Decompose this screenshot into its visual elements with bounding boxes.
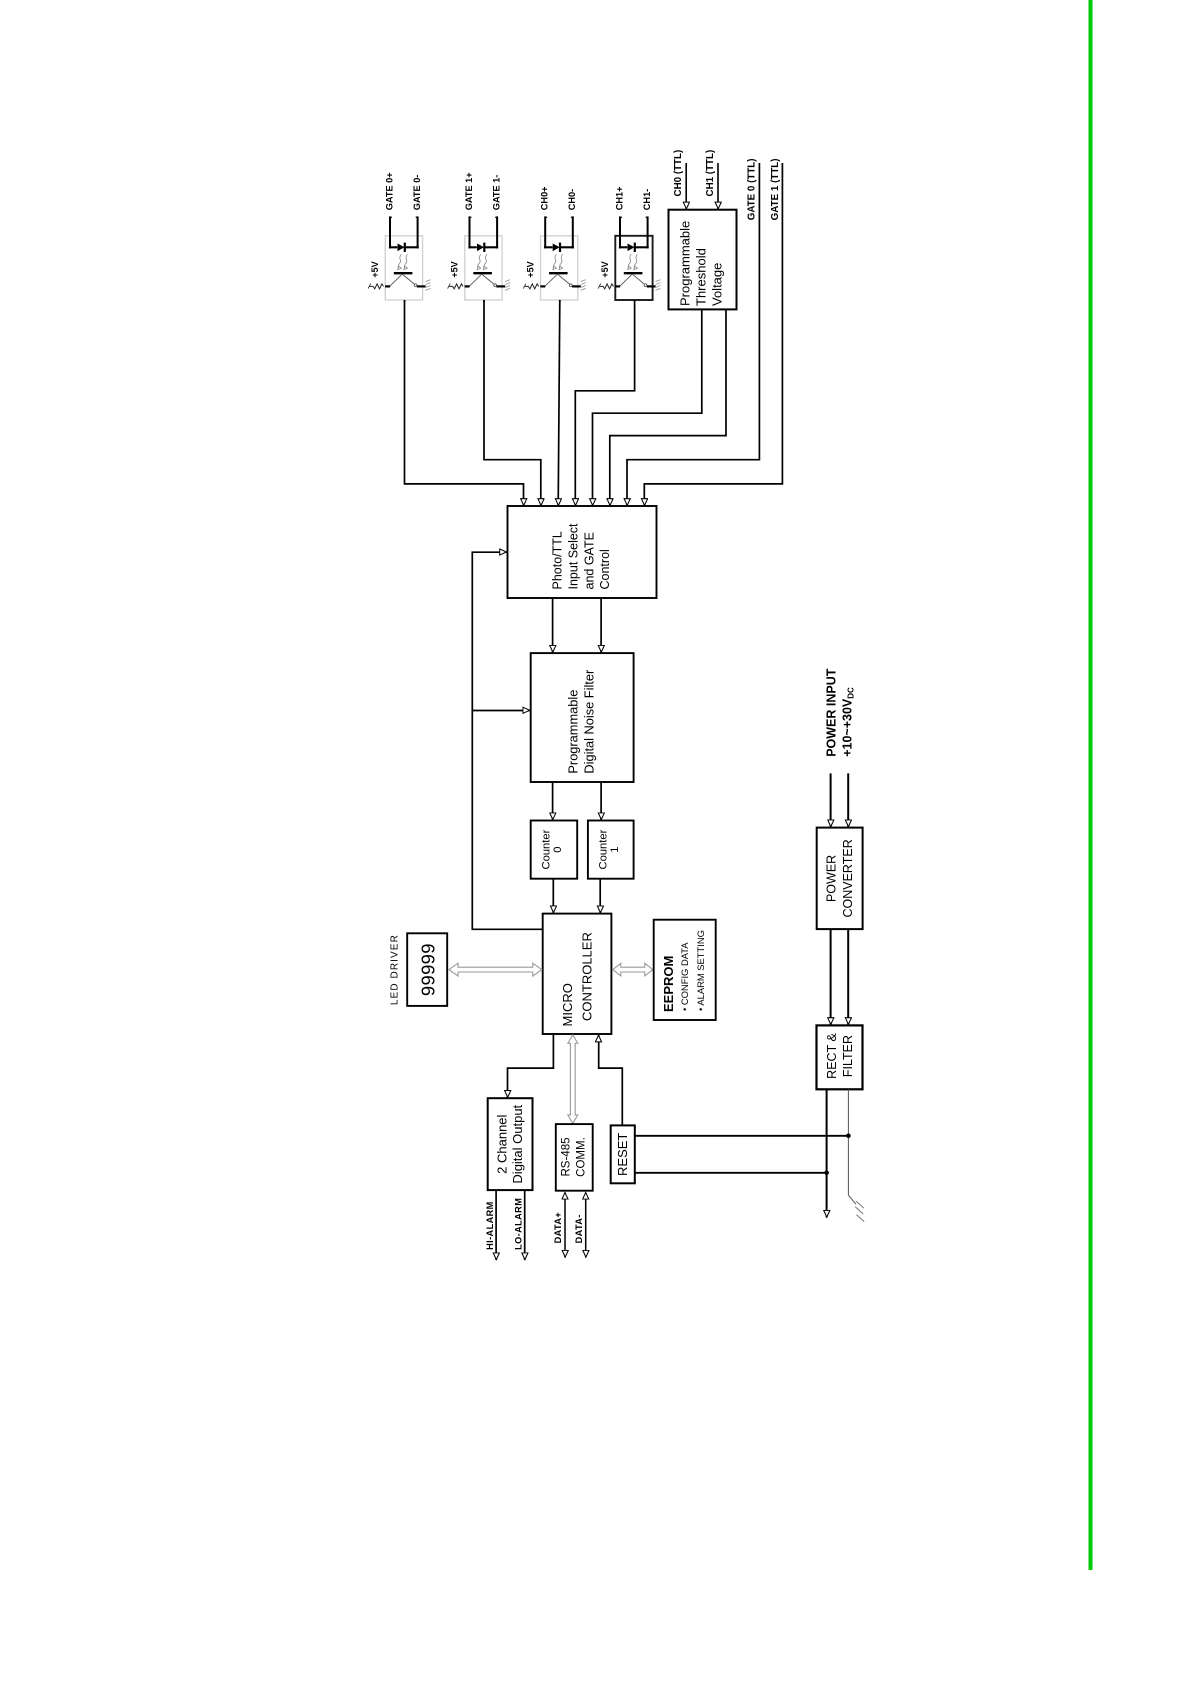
svg-text:CH0+: CH0+: [540, 186, 550, 210]
svg-text:Threshold: Threshold: [694, 248, 709, 306]
wire power input -: [847, 773, 849, 827]
wire CH0 (TTL) input arrow: [685, 163, 687, 209]
wire opto output stub: [404, 300, 406, 302]
optocoupler ISO3 (CH0 input opto) package outline: [541, 236, 578, 300]
LED diode D2 (opto emitter): [468, 246, 476, 248]
svg-text:Photo/TTL: Photo/TTL: [551, 531, 565, 589]
ground (chassis) symbol: [426, 280, 431, 282]
resistor R1 (pull-up to +5V): [370, 284, 384, 289]
wire emitter to ground: [572, 285, 581, 287]
wire GATE 0+ input lead: [389, 216, 391, 248]
svg-text:Digital Output: Digital Output: [510, 1104, 525, 1183]
svg-text:HI-ALARM: HI-ALARM: [485, 1201, 495, 1250]
wire counter 1 to microcontroller: [599, 879, 601, 913]
svg-text:EEPROM: EEPROM: [661, 956, 676, 1012]
wire feedback branch to noise filter: [472, 710, 530, 712]
wire HI-ALARM output: [495, 1190, 497, 1260]
phototransistor Q1: [394, 272, 413, 274]
svg-text:Control: Control: [598, 549, 612, 589]
wire ISO2 output to select block: [484, 301, 541, 506]
wire converter to rect&filter 2: [847, 929, 849, 1025]
phototransistor Q4: [624, 272, 643, 274]
svg-text:RECT &: RECT &: [825, 1033, 839, 1079]
svg-text:Programmable: Programmable: [678, 221, 693, 306]
wire RESET to power rail (lower): [635, 1172, 827, 1174]
wire GATE 1- input lead: [496, 216, 498, 248]
svg-text:Voltage: Voltage: [710, 263, 725, 306]
svg-text:FILTER: FILTER: [841, 1035, 855, 1077]
wire emitter to ground: [647, 285, 656, 287]
svg-text:POWER: POWER: [825, 855, 839, 902]
svg-text:Counter: Counter: [598, 829, 610, 869]
block RS-485 COMM.: [556, 1124, 593, 1191]
svg-text:CH1 (TTL): CH1 (TTL): [705, 150, 716, 197]
wire power input +: [830, 773, 832, 827]
block RESET: [611, 1125, 635, 1183]
svg-text:CH1-: CH1-: [642, 189, 652, 210]
svg-text:GATE 1-: GATE 1-: [492, 175, 502, 211]
resistor R4 (pull-up to +5V): [600, 284, 614, 289]
ground (chassis) symbol: [656, 280, 661, 282]
wire CH1 (TTL) input arrow: [717, 163, 719, 209]
data bus microcontroller to EEPROM (double arrow): [613, 963, 653, 976]
block RECT & FILTER: [817, 1025, 863, 1089]
green page sidebar line: [1089, 0, 1093, 1570]
svg-text:RESET: RESET: [615, 1133, 630, 1176]
resistor R3 (pull-up to +5V): [525, 284, 539, 289]
wire GATE 0 (TTL) to select block: [627, 163, 759, 506]
svg-text:LED DRIVER: LED DRIVER: [390, 934, 401, 1005]
optocoupler ISO2 (GATE 1 input opto) package outline: [465, 236, 502, 300]
ground (chassis) symbol: [581, 280, 586, 282]
svg-text:Input Select: Input Select: [567, 523, 581, 590]
resistor R2 (pull-up to +5V): [449, 284, 463, 289]
phototransistor Q3: [549, 272, 568, 274]
data bus microcontroller to LED driver (double arrow): [449, 963, 542, 976]
wire select block to noise filter ch0: [552, 598, 554, 653]
block U2 Photo/TTL Input Select and GATE Control: [508, 506, 657, 598]
block U3 Programmable Digital Noise Filter: [531, 653, 634, 782]
data bus microcontroller to RS-485 (double arrow vertical): [568, 1035, 578, 1124]
wire opto output stub: [634, 300, 636, 302]
light coupling arrows: [553, 254, 556, 268]
wire threshold voltage output 2: [610, 309, 726, 505]
block POWER CONVERTER: [817, 828, 863, 930]
svg-text:CH0-: CH0-: [567, 189, 577, 210]
wire GATE 1+ input lead: [469, 216, 471, 248]
optocoupler ISO1 (GATE 0 input opto) package outline: [385, 236, 422, 300]
wire select block to noise filter ch1: [600, 598, 602, 653]
block LED DRIVER display: [407, 933, 447, 1006]
wire opto output stub: [559, 300, 561, 302]
+5V terminal tick: [598, 284, 601, 289]
svg-text:GATE 0 (TTL): GATE 0 (TTL): [747, 158, 758, 220]
svg-text:CONTROLLER: CONTROLLER: [580, 932, 595, 1021]
svg-text:• ALARM SETTING: • ALARM SETTING: [695, 930, 706, 1011]
wire GATE 0- input lead: [417, 216, 419, 248]
wire converter to rect&filter 1: [830, 929, 832, 1025]
svg-text:99999: 99999: [417, 943, 438, 996]
wire collector to pull-up: [615, 285, 620, 287]
wire CH0- input lead: [572, 216, 574, 248]
svg-text:GATE 1+: GATE 1+: [464, 172, 474, 210]
+5V terminal tick: [368, 284, 371, 289]
wire CH1+ input lead: [619, 216, 621, 248]
optocoupler ISO4 (CH1 input opto) package outline: [615, 236, 652, 300]
svg-text:1: 1: [609, 846, 621, 852]
svg-text:POWER INPUT: POWER INPUT: [824, 668, 838, 757]
block U1 Programmable Threshold Voltage: [669, 210, 737, 310]
svg-text:• CONFIG DATA: • CONFIG DATA: [679, 942, 690, 1011]
svg-text:GATE 1 (TTL): GATE 1 (TTL): [770, 158, 781, 220]
LED diode D3 (opto emitter): [544, 246, 552, 248]
LED diode D4 (opto emitter): [619, 246, 627, 248]
wire noise filter to counter 1: [600, 782, 602, 820]
wire ISO4 output to select block: [575, 301, 634, 506]
block U4 MICRO CONTROLLER: [543, 914, 612, 1034]
svg-text:+5V: +5V: [450, 261, 460, 277]
wire LO-ALARM output: [524, 1190, 526, 1260]
svg-text:2 Channel: 2 Channel: [495, 1114, 510, 1173]
earth ground symbol: [848, 1195, 855, 1204]
wire ISO1 output to select block: [405, 301, 524, 506]
wire RESET to microcontroller: [599, 1035, 623, 1126]
light coupling arrows: [628, 254, 631, 268]
svg-text:CH0 (TTL): CH0 (TTL): [673, 150, 684, 197]
svg-text:Digital Noise Filter: Digital Noise Filter: [582, 669, 597, 774]
wire counter 0 to microcontroller: [552, 879, 554, 913]
block Counter 1: [588, 821, 634, 879]
svg-text:RS-485: RS-485: [561, 1138, 573, 1177]
wire power return rail (right, to earth): [847, 1089, 849, 1195]
block EEPROM: [654, 920, 716, 1020]
ground (chassis) symbol: [505, 280, 510, 282]
svg-text:0: 0: [552, 846, 564, 852]
svg-text:COMM.: COMM.: [576, 1137, 588, 1177]
svg-text:MICRO: MICRO: [560, 983, 575, 1026]
svg-text:CONVERTER: CONVERTER: [841, 839, 855, 917]
wire power rail output (left, with arrow): [826, 1089, 828, 1217]
svg-text:DATA-: DATA-: [574, 1214, 584, 1243]
wire noise filter to counter 0: [552, 782, 554, 820]
light coupling arrows: [478, 254, 481, 268]
wire collector to pull-up: [465, 285, 470, 287]
svg-text:Counter: Counter: [540, 829, 552, 869]
wire collector to pull-up: [540, 285, 545, 287]
wire ISO3 output to select block: [558, 301, 560, 506]
+5V terminal tick: [448, 284, 451, 289]
svg-text:+5V: +5V: [600, 261, 610, 277]
wire CH1- input lead: [647, 216, 649, 248]
wire emitter to ground: [417, 285, 426, 287]
wire emitter to ground: [496, 285, 505, 287]
svg-text:+5V: +5V: [370, 261, 380, 277]
junction node: lower reset line on left rail: [824, 1171, 829, 1176]
svg-text:CH1+: CH1+: [614, 186, 624, 210]
wire microcontroller to 2 channel digital output: [508, 1034, 554, 1098]
svg-text:GATE 0-: GATE 0-: [412, 175, 422, 211]
block Counter 0: [531, 821, 578, 879]
wire DATA- (bidirectional): [585, 1193, 587, 1258]
light coupling arrows: [398, 254, 401, 268]
svg-text:and GATE: and GATE: [583, 532, 597, 589]
LED diode D1 (opto emitter): [389, 246, 397, 248]
svg-text:GATE 0+: GATE 0+: [384, 172, 394, 210]
wire opto output stub: [483, 300, 485, 302]
wire RESET to power rail (upper): [635, 1135, 849, 1137]
svg-text:Programmable: Programmable: [566, 690, 581, 774]
junction node: upper reset line on return rail: [846, 1134, 851, 1139]
wire CH0+ input lead: [544, 216, 546, 248]
block 2 Channel Digital Output: [488, 1098, 533, 1190]
+5V terminal tick: [523, 284, 526, 289]
phototransistor Q2: [473, 272, 492, 274]
wire GATE 1 (TTL) to select block: [644, 163, 782, 506]
wire threshold voltage output 1: [593, 309, 702, 505]
feedback wire from microcontroller to select and filter blocks: [472, 552, 542, 929]
svg-text:DATA+: DATA+: [553, 1212, 563, 1244]
svg-text:+5V: +5V: [525, 261, 535, 277]
svg-text:LO-ALARM: LO-ALARM: [514, 1198, 524, 1250]
wire DATA+ (bidirectional): [564, 1193, 566, 1258]
wire collector to pull-up: [385, 285, 390, 287]
